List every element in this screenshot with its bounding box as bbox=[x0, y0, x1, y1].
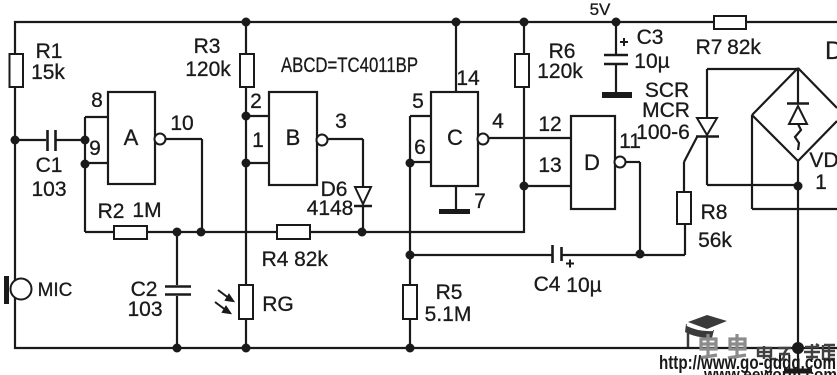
svg-text:11: 11 bbox=[619, 130, 641, 153]
svg-text:RG: RG bbox=[262, 293, 294, 316]
svg-text:D: D bbox=[825, 37, 837, 65]
svg-text:10µ: 10µ bbox=[566, 274, 601, 297]
svg-text:1: 1 bbox=[252, 129, 264, 152]
svg-text:14: 14 bbox=[456, 67, 480, 90]
svg-text:1M: 1M bbox=[132, 199, 161, 222]
svg-text:R3: R3 bbox=[194, 35, 221, 58]
svg-text:R4: R4 bbox=[262, 248, 289, 271]
svg-text:D: D bbox=[584, 150, 600, 175]
svg-text:5: 5 bbox=[412, 90, 424, 113]
svg-text:4: 4 bbox=[492, 110, 504, 133]
svg-text:6: 6 bbox=[414, 136, 426, 159]
svg-text:5V: 5V bbox=[590, 0, 611, 19]
svg-text:103: 103 bbox=[127, 298, 162, 321]
svg-text:13: 13 bbox=[538, 154, 561, 177]
svg-text:C: C bbox=[447, 125, 463, 150]
svg-text:82k: 82k bbox=[727, 36, 761, 59]
svg-text:120k: 120k bbox=[185, 58, 231, 81]
svg-text:ABCD=TC4011BP: ABCD=TC4011BP bbox=[281, 54, 418, 77]
svg-text:82k: 82k bbox=[294, 248, 328, 271]
svg-text:MIC: MIC bbox=[38, 280, 73, 301]
svg-text:MCR: MCR bbox=[642, 99, 690, 122]
svg-text:9: 9 bbox=[89, 137, 101, 160]
svg-text:VD: VD bbox=[809, 149, 837, 172]
svg-text:12: 12 bbox=[538, 113, 561, 136]
svg-text:2: 2 bbox=[250, 90, 262, 113]
svg-text:4148: 4148 bbox=[307, 197, 354, 220]
svg-text:56k: 56k bbox=[698, 229, 732, 252]
svg-text:3: 3 bbox=[335, 110, 347, 133]
svg-text:120k: 120k bbox=[537, 60, 583, 83]
svg-text:15k: 15k bbox=[31, 61, 65, 84]
svg-text:R2: R2 bbox=[98, 200, 125, 223]
svg-text:C1: C1 bbox=[36, 154, 63, 177]
svg-text:A: A bbox=[124, 125, 139, 150]
svg-text:7: 7 bbox=[474, 190, 486, 213]
svg-text:1: 1 bbox=[815, 171, 827, 194]
svg-text:R8: R8 bbox=[701, 201, 728, 224]
svg-text:B: B bbox=[286, 125, 301, 150]
svg-text:8: 8 bbox=[91, 89, 103, 112]
svg-text:www.eeworm.com: www.eeworm.com bbox=[703, 365, 837, 375]
svg-text:R5: R5 bbox=[436, 281, 463, 304]
svg-text:10: 10 bbox=[170, 112, 193, 135]
svg-text:R1: R1 bbox=[36, 40, 63, 63]
svg-text:C3: C3 bbox=[637, 26, 664, 49]
svg-text:10µ: 10µ bbox=[634, 50, 669, 73]
svg-text:R7: R7 bbox=[696, 36, 723, 59]
svg-text:C4: C4 bbox=[534, 273, 561, 296]
svg-text:103: 103 bbox=[31, 178, 66, 201]
svg-text:100-6: 100-6 bbox=[636, 121, 690, 144]
svg-text:5.1M: 5.1M bbox=[425, 303, 472, 326]
